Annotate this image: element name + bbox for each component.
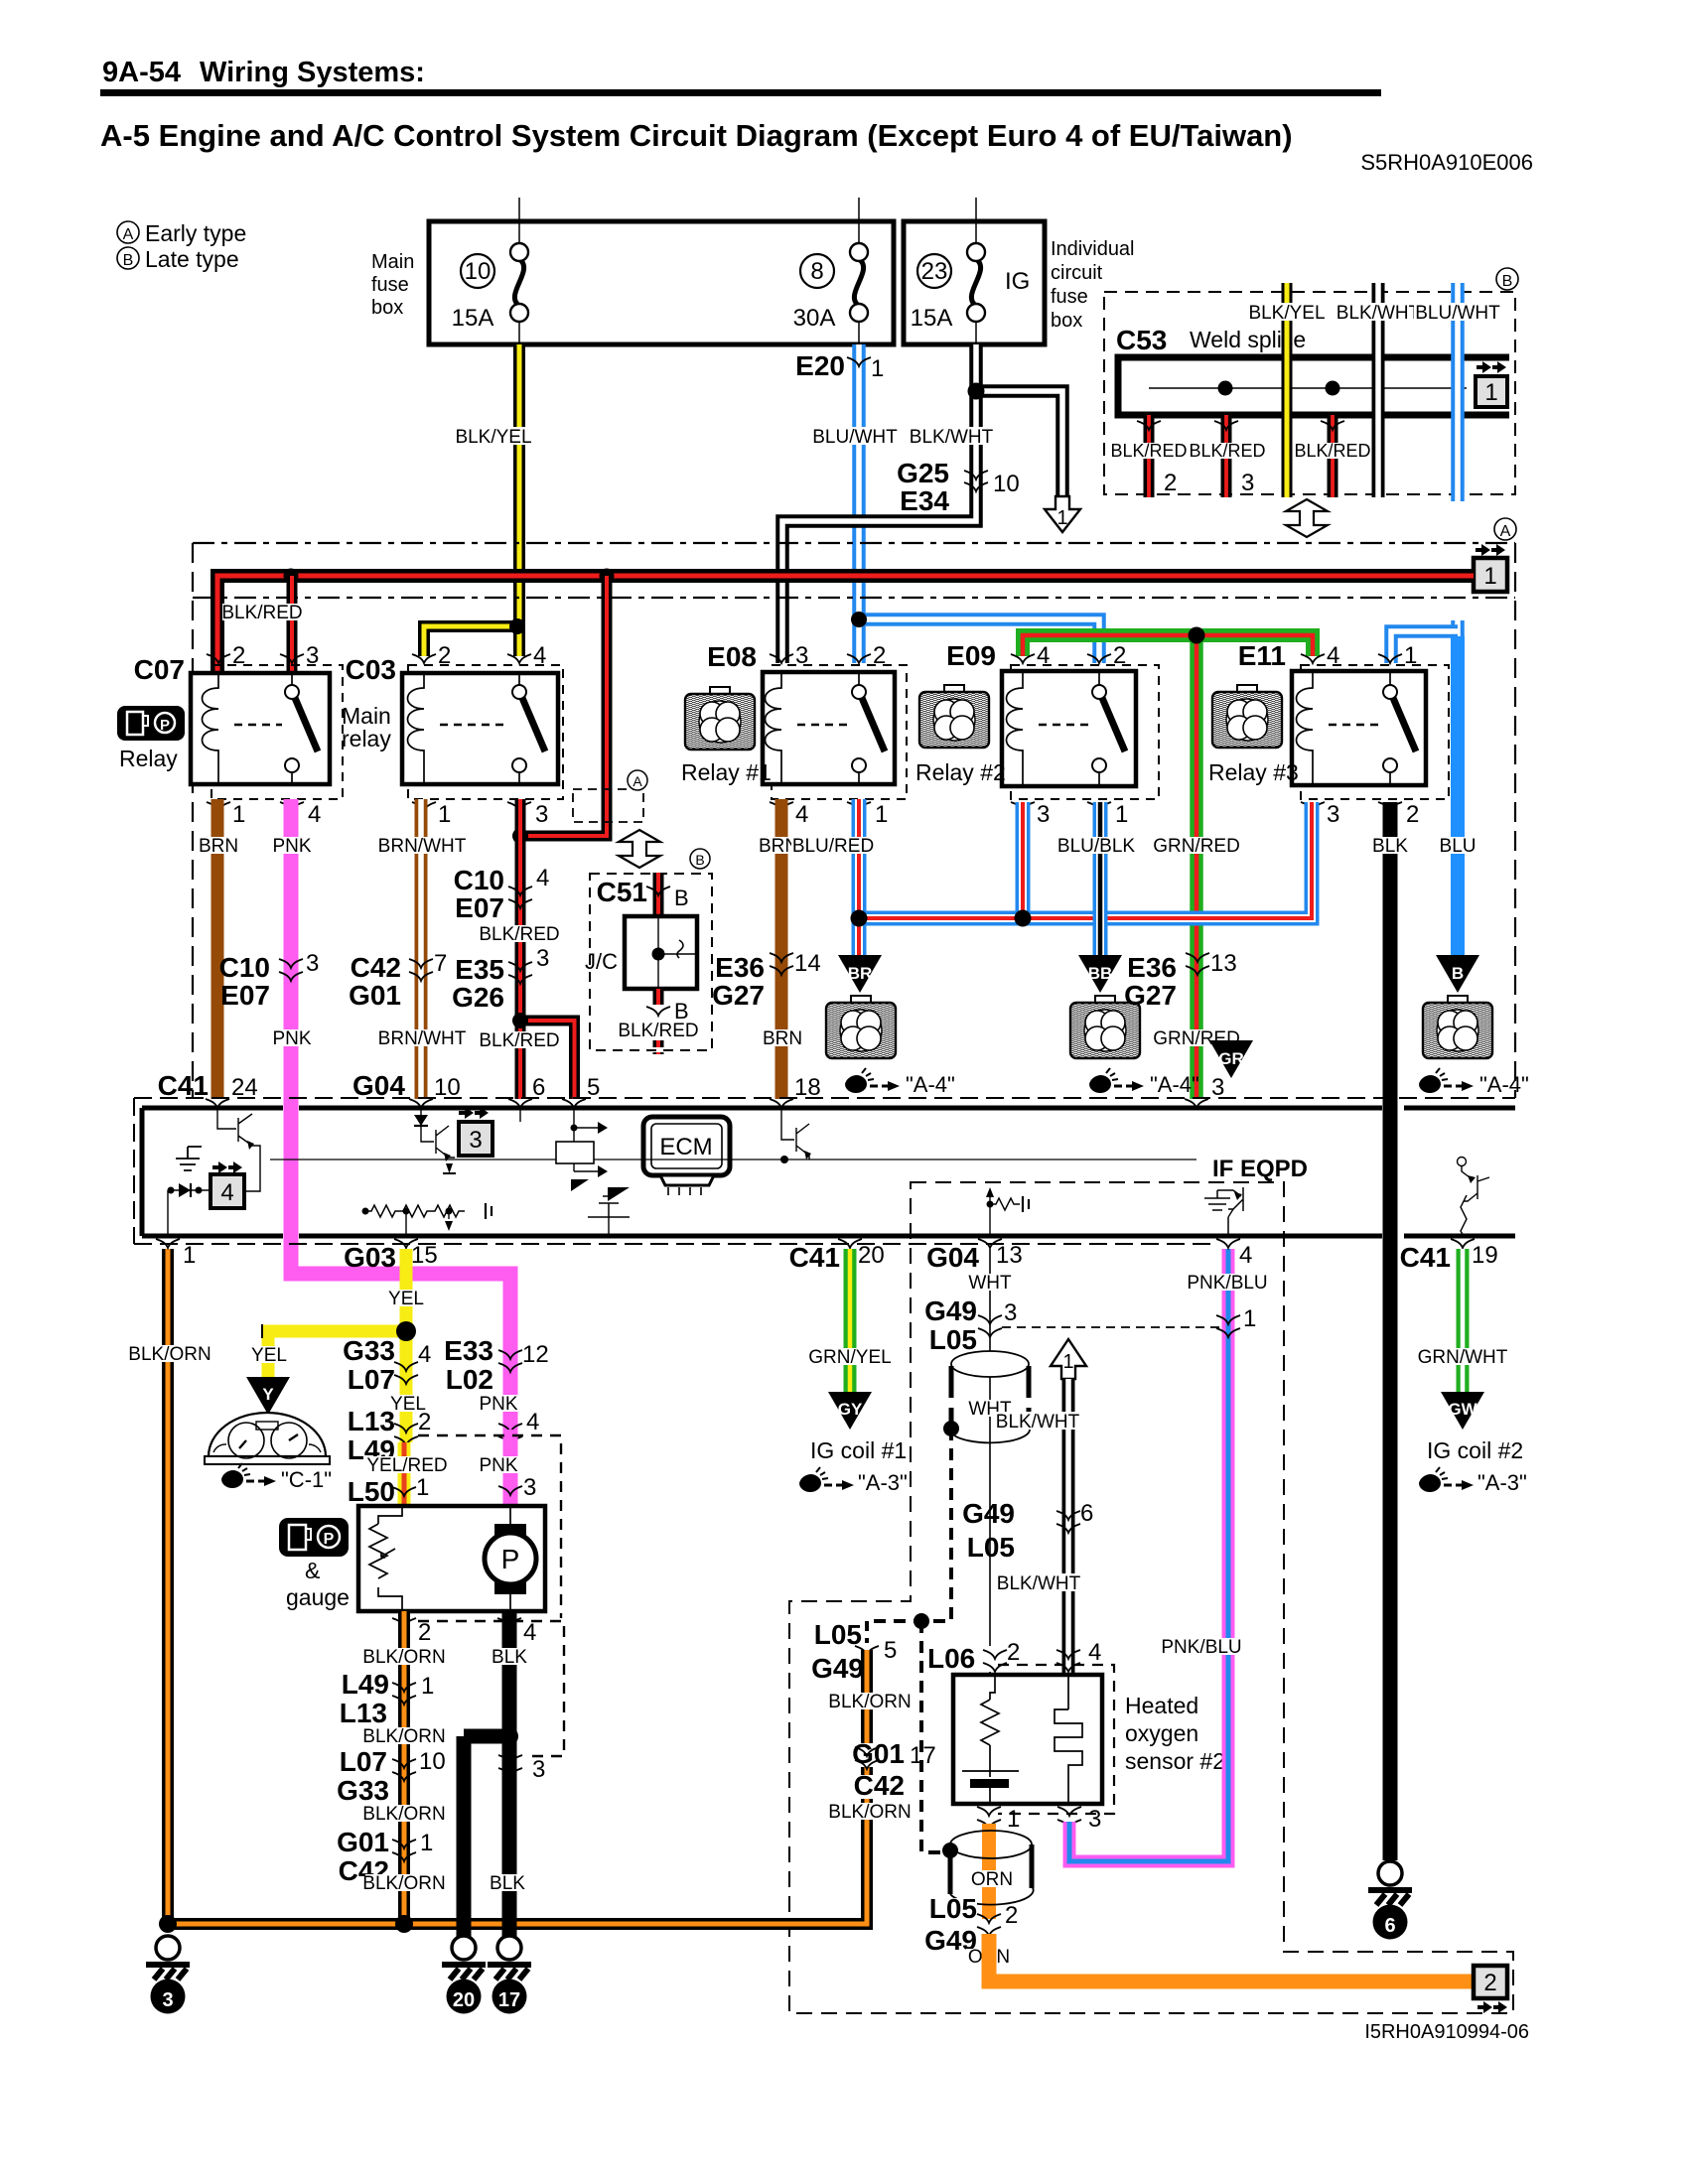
condenser fan (BB) <box>1070 996 1140 1058</box>
ECM top pin 5 <box>562 1074 600 1108</box>
svg-text:3: 3 <box>1327 801 1339 828</box>
svg-text:4: 4 <box>308 801 321 828</box>
svg-text:BLU/WHT: BLU/WHT <box>1415 303 1500 324</box>
svg-text:I5RH0A910994-06: I5RH0A910994-06 <box>1364 2021 1529 2043</box>
svg-text:4: 4 <box>795 801 808 828</box>
svg-text:3: 3 <box>306 642 319 669</box>
PNK pin 3 into pump <box>498 1474 536 1501</box>
wire BLU/WHT corner to E11 pin1 <box>1391 631 1458 663</box>
svg-text:WHT: WHT <box>968 1273 1012 1294</box>
svg-text:IF EQPD: IF EQPD <box>1212 1156 1308 1182</box>
connector G33/L07 pin 4 on YEL <box>343 1335 431 1395</box>
E09 coil <box>1007 671 1024 786</box>
svg-text:1: 1 <box>1056 507 1067 529</box>
svg-text:17: 17 <box>910 1742 936 1769</box>
wire BLK/RED branch to ECM pin 5 <box>520 1021 575 1099</box>
wire YEL from G03 down <box>400 1249 413 1442</box>
L06 internals sensor cell <box>962 1675 1019 1804</box>
BRN label 2 <box>759 1028 805 1049</box>
junction dot BLU/RED at E09 <box>1015 910 1032 927</box>
BLU/BLK label <box>1055 836 1138 857</box>
svg-text:G25: G25 <box>897 458 949 488</box>
svg-text:G04: G04 <box>352 1070 405 1101</box>
connector E33/L02 pin 12 on PNK <box>444 1335 549 1395</box>
wire BLU solid down right side to B triangle <box>1451 636 1465 955</box>
svg-text:L05: L05 <box>814 1619 862 1650</box>
connector E35/G26 pin 3 on BLK/RED <box>452 945 549 1013</box>
connector C42/G01 pin 7 on BRN/WHT <box>349 950 447 1011</box>
BRN/WHT label 2 <box>377 1028 467 1049</box>
ECM internal long rail <box>270 1159 1196 1160</box>
svg-text:L07: L07 <box>348 1364 395 1395</box>
svg-text:BLK/WHT: BLK/WHT <box>997 1573 1081 1594</box>
junction dot BLK/YEL <box>509 618 525 634</box>
svg-text:PNK: PNK <box>272 836 311 857</box>
svg-text:BLK/WHT: BLK/WHT <box>910 427 994 448</box>
connector E36/G27 pin 14 on BRN <box>712 950 821 1011</box>
svg-text:S5RH0A910E006: S5RH0A910E006 <box>1360 150 1533 175</box>
svg-text:A: A <box>633 773 642 789</box>
svg-text:4: 4 <box>536 865 549 891</box>
junction dot bus middle <box>395 1915 413 1933</box>
BLK/WHT label <box>907 427 996 448</box>
svg-text:E07: E07 <box>220 980 270 1011</box>
C07 switch <box>285 673 318 784</box>
svg-text:4: 4 <box>1327 642 1339 669</box>
svg-text:1: 1 <box>438 801 451 828</box>
svg-text:BLU/RED: BLU/RED <box>792 836 874 857</box>
connector L05/G49 pin 2 <box>902 1893 1018 1956</box>
junction dot BLK/WHT branch <box>968 383 985 400</box>
svg-text:"A-4": "A-4" <box>1479 1072 1529 1097</box>
weld splice BLK/WHT wire <box>1335 283 1423 497</box>
svg-text:G01: G01 <box>337 1827 389 1857</box>
svg-text:30A: 30A <box>793 305 836 332</box>
connector L05/G49 pin 5 <box>808 1619 897 1684</box>
svg-text:1: 1 <box>183 1242 196 1269</box>
svg-text:Y: Y <box>262 1385 274 1404</box>
svg-text:E36: E36 <box>715 952 765 983</box>
svg-text:PNK/BLU: PNK/BLU <box>1187 1273 1267 1294</box>
wire BLK/YEL from fuse 10 to C03 pin 4 <box>513 344 525 656</box>
net triangle GW <box>1441 1392 1484 1430</box>
wire BLU/RED stub down to BR triangle <box>852 918 867 955</box>
connector G25/E34 pin 10 <box>897 458 1020 516</box>
header rule <box>100 89 1381 96</box>
ECM top pin G04 10 <box>352 1070 461 1108</box>
E08 internal dashed link <box>797 724 849 726</box>
svg-text:17: 17 <box>498 1989 520 2011</box>
ECM internal resistor chain above pin 15 <box>362 1203 492 1236</box>
connector E20 pin 1 <box>795 350 884 382</box>
E11 switch <box>1383 671 1416 785</box>
svg-text:B: B <box>674 886 689 910</box>
svg-text:2: 2 <box>232 642 245 669</box>
svg-text:Relay #3: Relay #3 <box>1208 759 1299 785</box>
E08 pin 2 <box>847 642 886 669</box>
svg-text:B: B <box>123 252 134 269</box>
svg-text:C41: C41 <box>158 1070 209 1101</box>
fuse 10 15A <box>452 198 528 344</box>
svg-text:15A: 15A <box>911 305 953 332</box>
svg-text:9A-54: 9A-54 <box>102 57 181 88</box>
L06 pin 2 <box>983 1639 1020 1672</box>
BLK/ORN label <box>362 1647 445 1668</box>
svg-text:G26: G26 <box>452 982 504 1013</box>
wire GRN/RED junction down to ECM pin 3 <box>1190 635 1203 1099</box>
wire BLU/WHT horizontal to E09 pin2 <box>859 619 1099 663</box>
ECM internal diode and pin1 line <box>168 1183 211 1236</box>
off-page hollow arrow 1 <box>1045 496 1080 532</box>
svg-text:Individual: Individual <box>1051 238 1135 260</box>
condenser fan (BR) <box>826 996 896 1058</box>
A-variant small dashed box <box>573 789 643 822</box>
PNK label 2 <box>270 1028 315 1049</box>
svg-text:1: 1 <box>421 1673 434 1700</box>
svg-text:BLK/ORN: BLK/ORN <box>362 1804 445 1825</box>
C51 internals <box>652 916 698 989</box>
svg-text:BRN: BRN <box>763 1028 802 1049</box>
svg-text:GRN/WHT: GRN/WHT <box>1418 1347 1508 1368</box>
ground 20 <box>442 1936 486 2014</box>
svg-text:BLK/RED: BLK/RED <box>479 924 559 945</box>
svg-text:YEL: YEL <box>388 1289 424 1309</box>
C07 internal dashed link <box>234 724 282 726</box>
svg-text:sensor #2: sensor #2 <box>1125 1748 1225 1774</box>
ECM bottom pin C41 20 <box>789 1239 885 1273</box>
ground 6 <box>1368 1861 1412 1940</box>
ORN label <box>966 1947 1012 1968</box>
BLK/ORN label left <box>128 1344 211 1365</box>
svg-text:C51: C51 <box>597 877 647 907</box>
svg-text:4: 4 <box>523 1619 536 1646</box>
svg-text:E36: E36 <box>1127 952 1177 983</box>
svg-text:2: 2 <box>1005 1902 1018 1929</box>
YEL label at branch <box>248 1345 290 1366</box>
hollow arrow up 1 (BLK/WHT source) <box>1051 1339 1086 1379</box>
svg-text:2: 2 <box>1406 801 1419 828</box>
svg-text:C10: C10 <box>454 865 504 895</box>
svg-text:4: 4 <box>1088 1639 1101 1666</box>
svg-text:E09: E09 <box>946 640 996 671</box>
svg-text:gauge: gauge <box>286 1584 350 1610</box>
svg-text:G01: G01 <box>852 1738 905 1769</box>
BLK/ORN label 2 <box>362 1726 445 1747</box>
eye ref A-4 (BR) <box>845 1068 955 1097</box>
svg-text:Wiring Systems:: Wiring Systems: <box>200 57 425 88</box>
svg-text:23: 23 <box>921 258 948 285</box>
connector C10/E07 pin 3 on PNK <box>219 950 320 1011</box>
svg-text:B: B <box>1502 273 1513 290</box>
BLK label <box>1368 836 1413 857</box>
C03 pin 1 <box>412 801 451 828</box>
wire GRN/WHT to GW triangle <box>1457 1249 1470 1394</box>
wire PNK/BLU from pin 3 to ECM G04 pin 4 <box>1069 1249 1228 1861</box>
A-region lower dashed border <box>193 597 1515 599</box>
B-variant C51 junction connector dashed box <box>590 874 712 1050</box>
ECM internal diode at pin 10 <box>414 1108 428 1132</box>
svg-text:E20: E20 <box>795 350 845 381</box>
eye ref A-3 (coil 2) <box>1419 1467 1527 1495</box>
svg-text:3: 3 <box>162 1989 173 2011</box>
svg-text:L02: L02 <box>446 1364 493 1395</box>
svg-text:YEL: YEL <box>251 1345 287 1366</box>
eye ref A-3 (coil 1) <box>799 1467 908 1495</box>
svg-text:E35: E35 <box>455 954 504 985</box>
A-region left dashed edge <box>192 543 194 1098</box>
ECM top pin 18 <box>770 1074 821 1108</box>
fuel pump relay icon <box>117 706 185 741</box>
svg-text:C03: C03 <box>346 654 396 685</box>
E09 pin 1 <box>1087 801 1128 828</box>
svg-text:IG: IG <box>1005 268 1030 295</box>
svg-text:YEL/RED: YEL/RED <box>366 1455 447 1476</box>
YEL label <box>385 1289 427 1309</box>
svg-text:L49: L49 <box>342 1669 389 1700</box>
wire BRN C07 pin1 to ECM pin 24 <box>211 799 224 1099</box>
svg-text:5: 5 <box>884 1637 897 1664</box>
shield cylinder WHT <box>951 1351 1030 1442</box>
svg-text:3: 3 <box>306 950 319 977</box>
svg-text:BLK/ORN: BLK/ORN <box>362 1726 445 1747</box>
BLK/WHT label 2 <box>994 1573 1083 1594</box>
E08 pin 4 <box>770 801 808 828</box>
svg-text:C41: C41 <box>1400 1242 1451 1273</box>
ECM connector dashed left/bottom <box>134 1098 1210 1244</box>
svg-text:BLU: BLU <box>1440 836 1477 857</box>
svg-text:GRN/RED: GRN/RED <box>1153 836 1240 857</box>
svg-text:3: 3 <box>523 1474 536 1501</box>
E08 pin 1 <box>847 801 888 828</box>
connector E36/G27 pin 13 on GRN/RED <box>1124 950 1237 1011</box>
svg-text:BLK/YEL: BLK/YEL <box>1248 303 1325 324</box>
svg-text:6: 6 <box>1384 1915 1395 1937</box>
svg-text:G49: G49 <box>962 1498 1015 1529</box>
svg-text:1: 1 <box>1062 1351 1073 1373</box>
connector L49/L13 pin 1 <box>340 1669 435 1728</box>
svg-text:1: 1 <box>1243 1305 1256 1332</box>
ECM internal box 3 <box>459 1107 492 1156</box>
wire BLK/ORN heated O2 ground chain <box>168 1650 867 1924</box>
junction dot bus left <box>159 1915 177 1933</box>
svg-text:5: 5 <box>587 1074 600 1101</box>
svg-text:ORN: ORN <box>971 1869 1013 1890</box>
svg-text:1: 1 <box>416 1474 429 1501</box>
svg-text:BLK/RED: BLK/RED <box>618 1021 698 1041</box>
relay C07 connector dashed box <box>211 665 343 799</box>
A-region right dashed edge <box>1514 543 1516 1098</box>
ECM bottom pin G03 15 <box>344 1239 438 1273</box>
B-variant dashed wire from shield to BLK/ORN and sensor connector <box>867 1429 951 1852</box>
svg-text:BLK/ORN: BLK/ORN <box>128 1344 211 1365</box>
svg-text:L05: L05 <box>929 1893 977 1924</box>
ECM connector dashed line top <box>134 1097 1515 1099</box>
C03 pin 4 <box>507 642 546 669</box>
A-region dash-dot upper border <box>193 542 1515 544</box>
C07 pin 2 <box>207 642 245 669</box>
svg-text:2: 2 <box>1113 642 1126 669</box>
wire GRN/YEL to GY triangle <box>844 1249 857 1394</box>
fuel pump assembly dashed box <box>418 1435 564 1756</box>
C07 pin 4 <box>280 801 321 828</box>
svg-text:L13: L13 <box>348 1406 395 1436</box>
svg-text:15: 15 <box>411 1242 438 1269</box>
svg-text:P: P <box>160 717 170 734</box>
svg-text:IG coil #1: IG coil #1 <box>810 1437 907 1463</box>
svg-text:3: 3 <box>1088 1806 1101 1833</box>
instrument cluster icon <box>205 1413 330 1464</box>
svg-text:2: 2 <box>438 642 451 669</box>
svg-text:E34: E34 <box>900 485 949 516</box>
weld splice BLK/YEL wire <box>1244 283 1330 497</box>
svg-text:3: 3 <box>532 1756 545 1783</box>
radiator fan icon relay 2 <box>919 685 989 748</box>
fuse 23 15A IG <box>911 198 1031 344</box>
svg-text:4: 4 <box>418 1341 431 1368</box>
fuel pump pin 2 <box>392 1618 431 1646</box>
main fuse box outline <box>429 221 894 344</box>
BLK/ORN label 4 <box>362 1873 445 1894</box>
ECM internal transistor at pin 10 <box>421 1126 456 1173</box>
svg-text:L05: L05 <box>967 1532 1015 1563</box>
svg-text:C10: C10 <box>219 952 270 983</box>
svg-text:2: 2 <box>418 1409 431 1435</box>
ECM internal transistor at pin 18 <box>780 1108 811 1163</box>
connector G49/L05 pins 3 and 1 dashed link <box>1002 1326 1228 1328</box>
fuel pump pin 4 <box>497 1618 536 1646</box>
svg-text:L05: L05 <box>929 1324 977 1355</box>
svg-text:C42: C42 <box>854 1770 905 1801</box>
svg-text:GR: GR <box>1218 1049 1244 1068</box>
wire PNK lower segment <box>503 1430 518 1506</box>
GRN/RED label 2 <box>1153 1028 1240 1049</box>
wire BLK branch to ground 20 <box>464 1736 509 1940</box>
wire BLK from pump pin4 <box>502 1611 517 1940</box>
BLK/RED main bus with corner to C07 pin2 <box>217 576 1474 671</box>
svg-text:BR: BR <box>848 964 873 983</box>
ECM strip box <box>142 1108 1515 1236</box>
svg-text:A-5 Engine and A/C Control Sys: A-5 Engine and A/C Control System Circui… <box>100 118 1293 153</box>
net triangle BB <box>1078 955 1122 993</box>
svg-text:C07: C07 <box>134 654 185 685</box>
svg-text:4: 4 <box>220 1179 233 1206</box>
junction dot GRN/RED <box>1189 627 1205 644</box>
svg-text:4: 4 <box>526 1409 539 1435</box>
svg-text:2: 2 <box>1483 1970 1496 1996</box>
ECM top pin C41 24 <box>158 1070 258 1108</box>
svg-text:GY: GY <box>838 1400 863 1419</box>
E11 pin 4 <box>1301 642 1339 669</box>
legend A Early type <box>117 220 246 246</box>
svg-text:3: 3 <box>1241 470 1254 496</box>
C03 internal dashed link <box>440 724 509 726</box>
yellow branch from BLK/YEL to C03 pin2 <box>424 626 517 656</box>
relay E11 box <box>1292 671 1426 785</box>
O2 connector sleeve ORN <box>950 1831 1034 1905</box>
C07 pin 3 <box>280 642 319 669</box>
net triangle B <box>1436 955 1479 993</box>
ECM internal link at pins 6/5 <box>556 1108 608 1177</box>
svg-text:E08: E08 <box>707 641 757 672</box>
weld splice BLU/WHT wire (continues to E11 pin 1) <box>1414 283 1501 637</box>
svg-text:13: 13 <box>1210 950 1237 977</box>
svg-text:E11: E11 <box>1238 640 1286 671</box>
ECM bottom pin 4 <box>1216 1239 1252 1269</box>
condenser fan (B) <box>1423 996 1492 1058</box>
YEL branch to cluster <box>262 1331 406 1379</box>
legend B Late type <box>117 246 239 272</box>
L06 label <box>923 1643 998 1674</box>
svg-text:A: A <box>123 226 134 243</box>
svg-text:8: 8 <box>810 258 823 285</box>
svg-text:"A-3": "A-3" <box>858 1470 908 1495</box>
E11 coil <box>1297 671 1314 785</box>
connector G01/C42 pin 1 <box>337 1827 433 1886</box>
PNK/BLU pin 1 chevron <box>1216 1305 1256 1337</box>
wire BLK/ORN C41 pin1 to ground bus <box>162 1249 174 1918</box>
E11 pin 1 <box>1378 642 1417 669</box>
ECM internal transistor+resistor at pin 19 <box>1458 1158 1490 1237</box>
YEL/RED label <box>366 1455 447 1476</box>
svg-text:BLK/YEL: BLK/YEL <box>455 427 531 448</box>
svg-text:3: 3 <box>536 945 549 972</box>
svg-text:B: B <box>695 852 704 868</box>
L06 pin 1 <box>977 1806 1020 1833</box>
svg-text:box: box <box>371 297 403 319</box>
svg-text:Relay #1: Relay #1 <box>681 759 772 785</box>
L06 internals heater <box>1055 1675 1082 1804</box>
wire BLU/WHT from fuse 8 to E08 pin2 <box>852 344 866 663</box>
L06 pin 4 <box>1056 1639 1101 1672</box>
svg-text:12: 12 <box>522 1341 549 1368</box>
svg-text:2: 2 <box>873 642 886 669</box>
svg-text:relay: relay <box>342 726 391 751</box>
svg-text:3: 3 <box>1004 1299 1017 1326</box>
ECM bottom pin 1 <box>156 1239 196 1269</box>
B/A variant double arrow under C53 <box>1286 499 1328 537</box>
svg-text:10: 10 <box>419 1748 446 1775</box>
svg-text:BRN: BRN <box>199 836 238 857</box>
C53 weld splice dashed box (B type) <box>1104 292 1515 494</box>
wire ORN to off-page 2 <box>989 1934 1474 1981</box>
svg-text:13: 13 <box>996 1242 1023 1269</box>
weld splice bus bars <box>1118 357 1509 415</box>
eye ref A-4 (BB) <box>1089 1068 1199 1097</box>
svg-text:PNK: PNK <box>272 1028 311 1049</box>
wire BLK E11 pin2 to ground 6 <box>1383 802 1398 1860</box>
relay E08 connector dashed box <box>772 665 907 799</box>
eye ref A-4 (B) <box>1419 1068 1529 1097</box>
svg-text:C41: C41 <box>789 1242 840 1273</box>
svg-text:6: 6 <box>532 1074 545 1101</box>
svg-text:3: 3 <box>795 642 808 669</box>
svg-text:PNK: PNK <box>479 1394 517 1415</box>
svg-text:7: 7 <box>434 950 447 977</box>
connector L07/G33 pin 10 <box>337 1746 446 1806</box>
relay E11 connector dashed box <box>1301 665 1449 799</box>
radiator fan icon relay 3 <box>1212 685 1282 748</box>
relay E08 box <box>763 672 895 784</box>
C03 pin 3 <box>507 801 548 828</box>
C03 pin 2 <box>412 642 451 669</box>
WHT label <box>968 1273 1013 1294</box>
wire BLK/RED to C07 pin3 <box>287 576 298 671</box>
fuse 8 30A <box>793 198 868 344</box>
svg-text:4: 4 <box>1239 1242 1252 1269</box>
ground 17 <box>488 1936 531 2014</box>
circled B top right <box>1496 268 1518 290</box>
ECM top pin 3 <box>1185 1074 1224 1108</box>
